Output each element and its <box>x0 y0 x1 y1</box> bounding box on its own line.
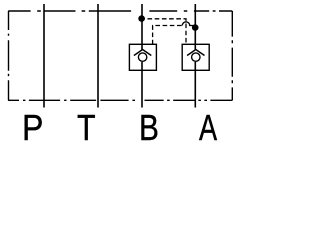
enclosure border top (dash-dot plate outline) <box>8 10 232 12</box>
port line B lower segment <box>141 62 143 108</box>
label T <box>77 110 96 146</box>
check valve V2 body <box>182 44 209 70</box>
check valve V1 seat <box>134 50 151 56</box>
port line P <box>43 4 45 108</box>
enclosure border bottom <box>8 99 232 101</box>
port line A lower segment <box>194 62 196 108</box>
crossover hop arc over pilot drop <box>182 22 195 26</box>
enclosure border left <box>8 11 10 100</box>
port line A upper segment <box>194 4 196 50</box>
junction dot on port B <box>138 15 145 22</box>
pilot line A to V1 (dashed, corner at x=152.6) <box>153 26 183 45</box>
junction dot on port A <box>192 24 199 31</box>
check valve V2 ball <box>192 53 200 61</box>
port line T <box>97 4 99 108</box>
check valve V2 seat <box>187 50 204 56</box>
enclosure border right <box>231 11 233 100</box>
port line B upper segment <box>141 4 143 50</box>
check valve V1 ball <box>138 53 146 61</box>
check valve V1 body <box>129 44 156 70</box>
pilot line B to V2 (dashed, corner at x=186) <box>142 19 186 45</box>
label P <box>22 110 43 146</box>
label A <box>199 110 217 146</box>
label B <box>139 110 159 146</box>
